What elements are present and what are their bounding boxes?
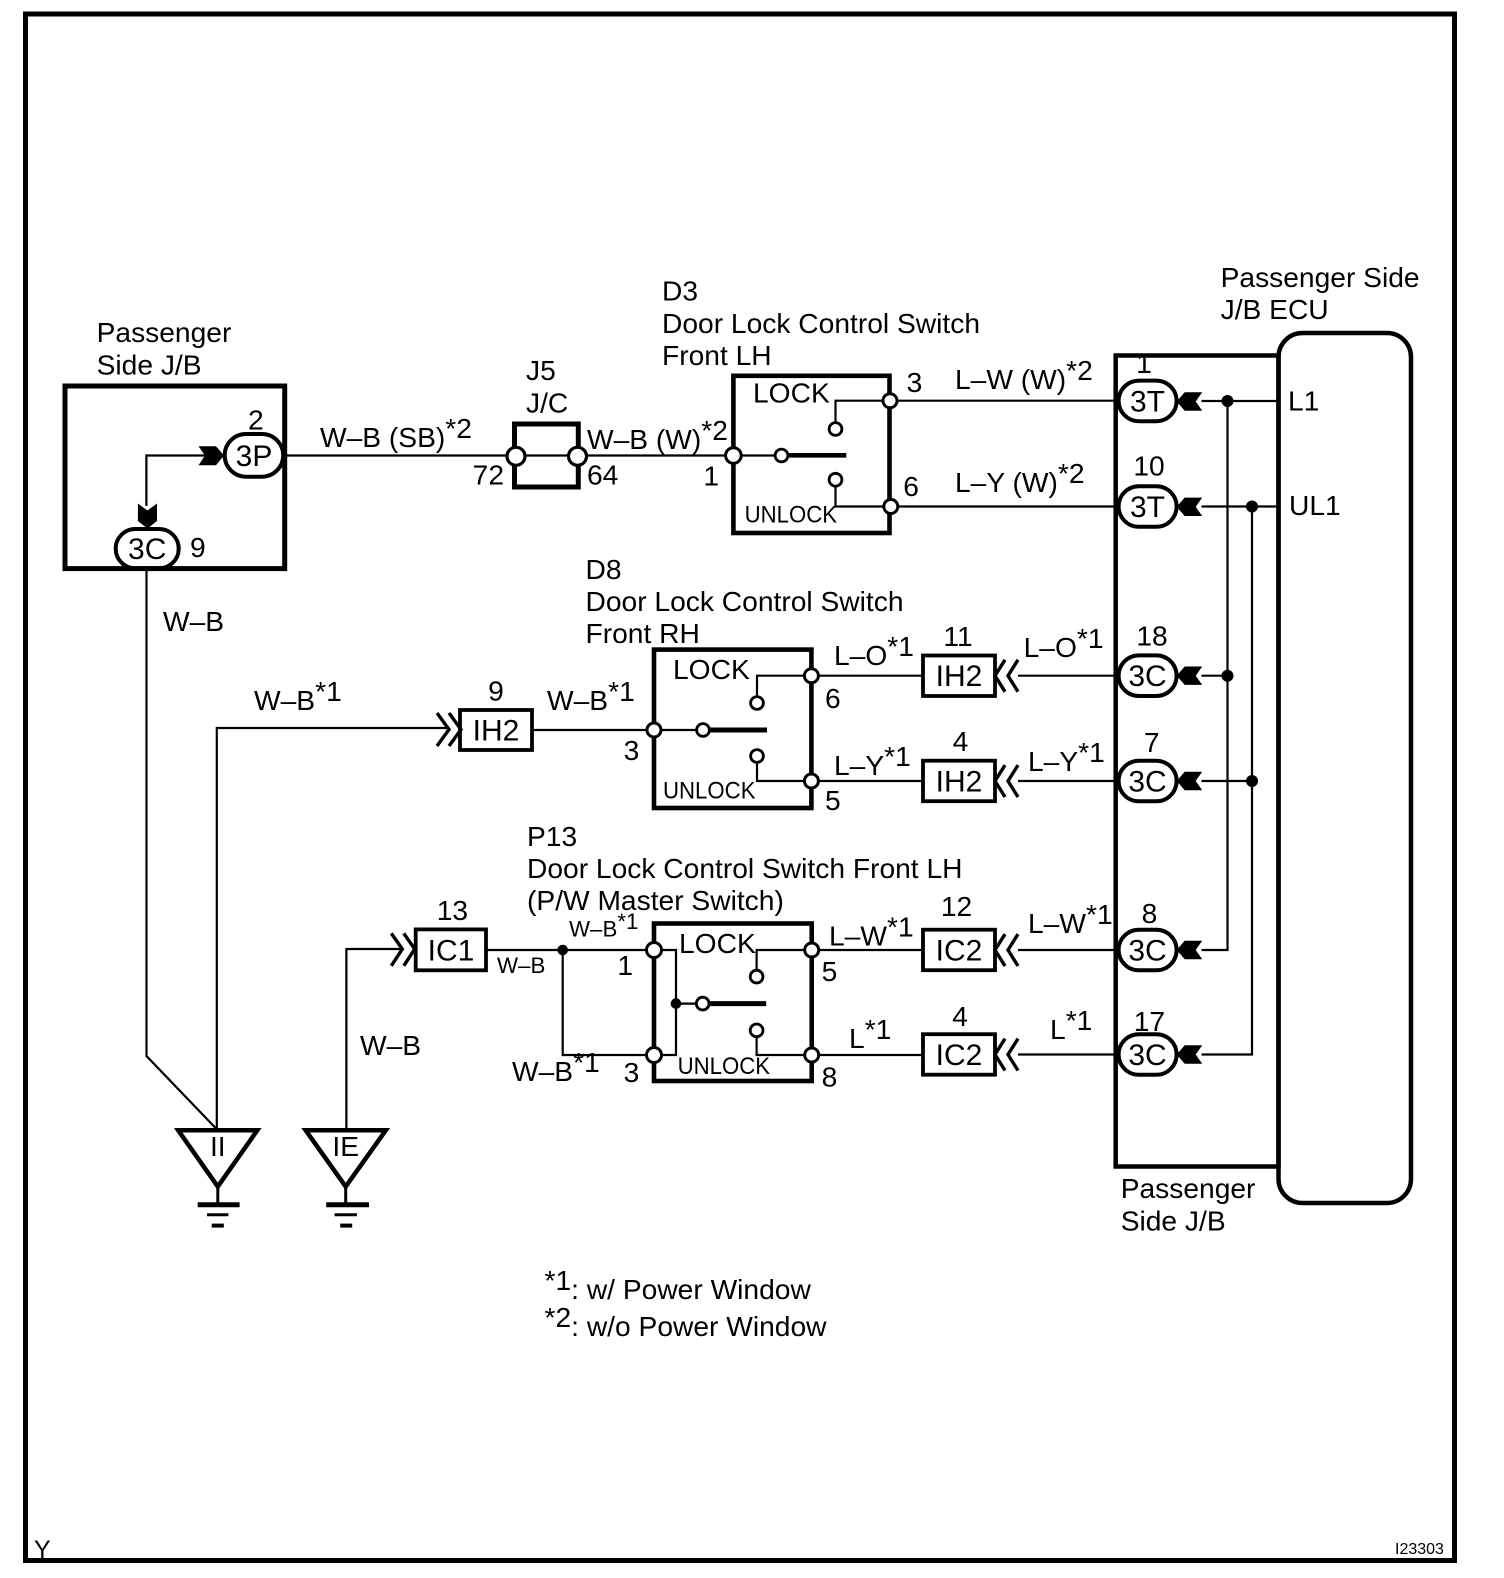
svg-text:D3: D3 (662, 275, 698, 307)
ground IE (306, 1130, 386, 1226)
wire: P13 UNLOCK contact to pin 8 (757, 1037, 804, 1055)
connector 3P pin 2 (225, 404, 284, 477)
svg-text:5: 5 (825, 784, 841, 816)
switch blade P13 (709, 1001, 766, 1006)
wire: D3 LOCK contact to pin 3 (836, 401, 884, 423)
svg-text:I23303: I23303 (1395, 1541, 1444, 1558)
node: D8 pin 5 (804, 774, 818, 788)
node: D8 pin 3 (647, 723, 661, 737)
svg-text:W–B: W–B (360, 1029, 421, 1061)
connector 3C pin 17 (1119, 1005, 1177, 1075)
node: D8 pivot (697, 724, 710, 737)
wire: L-W*1 from P13 pin 5 to IC2 12 (819, 949, 923, 951)
connector 3C pin 18 (1119, 620, 1177, 696)
svg-text:D8: D8 (586, 553, 622, 585)
arrow at 3C 7 (1177, 772, 1203, 790)
node: D3 LOCK contact (829, 423, 842, 436)
wire: D3 common to pivot (741, 454, 775, 456)
node: P13 pin 3 (647, 1048, 662, 1063)
svg-text:13: 13 (437, 894, 468, 926)
connector IH2 pin 9 (460, 675, 532, 750)
connector 3C pin 8 (1119, 897, 1177, 970)
svg-text:6: 6 (903, 470, 919, 502)
svg-text:3: 3 (624, 1056, 640, 1088)
svg-text:1: 1 (1136, 347, 1152, 379)
switch blade D8 (709, 728, 767, 733)
wire: D8 UNLOCK contact to pin 5 (757, 762, 804, 781)
switch D8 Door Lock Control Switch Front RH (586, 553, 904, 808)
svg-text:3T: 3T (1130, 491, 1165, 524)
connector 3C pin 9 (116, 529, 206, 568)
svg-text:7: 7 (1144, 726, 1160, 758)
svg-text:Side J/B: Side J/B (97, 349, 202, 381)
svg-text:Passenger: Passenger (1121, 1172, 1256, 1204)
svg-text:2: 2 (248, 404, 264, 436)
wire: P13 internal pin1/pin3 link (662, 950, 677, 1055)
ground II (178, 1130, 257, 1226)
arrow at 3C 8 (1177, 941, 1203, 959)
svg-text:4: 4 (952, 1000, 968, 1032)
connector IC2 pin 12 (923, 890, 995, 970)
junction dot row 18 (1222, 670, 1234, 682)
svg-text:J/C: J/C (526, 387, 568, 419)
node: J5 pin 72 (507, 447, 525, 465)
svg-text:Door Lock Control Switch: Door Lock Control Switch (662, 307, 980, 339)
svg-text:Passenger: Passenger (97, 316, 232, 348)
svg-text:J5: J5 (526, 354, 556, 386)
svg-text:8: 8 (1142, 897, 1158, 929)
svg-text:IH2: IH2 (936, 765, 983, 798)
svg-text:5: 5 (822, 955, 838, 987)
connector IH2 pin 11 (923, 620, 995, 696)
wire: D3 UNLOCK contact to pin 6 (836, 486, 884, 506)
node: P13 pin 1 (647, 943, 662, 958)
svg-text:UNLOCK: UNLOCK (663, 777, 756, 804)
svg-text:1: 1 (703, 460, 719, 492)
junction block: Passenger Side J/B (left) (97, 316, 232, 381)
connector IH2 pin 4 (923, 725, 995, 801)
wire: internal J/B wire from 3C up to 3P (146, 456, 207, 507)
wire: ECU UL1 to 3T 10 (1202, 505, 1277, 507)
node: D8 pin 6 (804, 669, 818, 683)
svg-text:3C: 3C (1128, 1039, 1166, 1072)
svg-text:3C: 3C (1128, 934, 1166, 967)
junction connector J5 J/C (473, 354, 619, 491)
wire: W-B*1 from IH2 9 to D8 pin 3 (532, 729, 647, 731)
wire: L-Y (W)*2 from D3 pin6 to 3T 10 (898, 505, 1120, 507)
arrow into connector 3C (138, 504, 157, 529)
svg-text:UL1: UL1 (1289, 489, 1341, 521)
junction block J/B left box outline (65, 386, 285, 569)
wire: L-W (W)*2 from D3 pin3 to 3T 1 (897, 400, 1120, 402)
junction dot L1 row (1222, 395, 1234, 407)
svg-text:IC2: IC2 (936, 934, 983, 967)
chevron pair into IH2 9 (437, 713, 449, 746)
svg-text:11: 11 (943, 620, 972, 652)
svg-text:IC2: IC2 (936, 1039, 983, 1072)
connector IC1 pin 13 (416, 894, 486, 970)
svg-text:Door Lock Control Switch Front: Door Lock Control Switch Front LH (527, 852, 963, 884)
wire: ECU L1 to 3T 1 (1202, 400, 1277, 402)
svg-text:3P: 3P (236, 440, 273, 473)
svg-text:3: 3 (624, 734, 640, 766)
connector IC2 pin 4 (923, 1000, 995, 1075)
svg-text:W–B: W–B (163, 605, 224, 637)
arrow into connector 3P (199, 446, 225, 465)
wire: P13 LOCK contact to pin 5 (757, 950, 804, 970)
switch P13 Door Lock Control Switch Front LH (P/W Master Switch) (527, 820, 963, 1081)
svg-text:8: 8 (822, 1061, 838, 1093)
svg-text:LOCK: LOCK (679, 927, 756, 959)
chevron pair into IC1 (391, 933, 402, 965)
switch blade D3 (788, 453, 846, 458)
svg-text:64: 64 (587, 459, 618, 491)
svg-text:LOCK: LOCK (753, 377, 830, 409)
svg-text:9: 9 (488, 675, 504, 707)
svg-text:1: 1 (617, 949, 633, 981)
wire: W-B*1 long run to IH2 9 (217, 728, 447, 1130)
node: D8 UNLOCK contact (751, 750, 764, 763)
wire: branch into 3C 7 (1202, 780, 1253, 782)
svg-text:18: 18 (1136, 620, 1167, 652)
wire: L-W*1 from IC2 12 to 3C 8 (1018, 949, 1120, 951)
node: D3 pin 6 (884, 500, 898, 514)
ECU box: Passenger Side J/B ECU (1221, 261, 1420, 1203)
node: D3 pin 1 (726, 448, 742, 464)
svg-text:Y: Y (34, 1536, 51, 1564)
chevron pair at IH2 4 (995, 765, 1005, 797)
wire: bus line 1 (L1 branch) (1202, 401, 1228, 950)
wire: W-B (SB)*2 from 3P to J5 (283, 454, 734, 456)
junction dot row 7 (1246, 775, 1258, 787)
chevron pair at IC2 12 (995, 934, 1005, 966)
svg-text:3: 3 (907, 366, 923, 398)
svg-text:II: II (210, 1130, 226, 1162)
wire: D8 LOCK contact to pin 6 (757, 676, 804, 697)
junction block bar: Passenger Side J/B (right) (1116, 356, 1279, 1237)
svg-text:72: 72 (473, 459, 504, 491)
wire: W-B into IC1 with corner down to IE ground (346, 949, 402, 1130)
connector 3T pin 10 (1119, 449, 1177, 527)
wire: L-O*1 from IH2 11 to 3C 18 (1018, 675, 1120, 677)
svg-text:UNLOCK: UNLOCK (678, 1053, 771, 1080)
svg-text:17: 17 (1134, 1005, 1165, 1037)
svg-text:Passenger Side: Passenger Side (1221, 261, 1420, 293)
wire: L*1 from IC2 4 to 3C 17 (1018, 1053, 1120, 1055)
connector 3T pin 1 (1119, 347, 1177, 421)
wire: L*1 from P13 pin 8 to IC2 4 (819, 1054, 923, 1056)
junction dot UL1 row (1246, 501, 1258, 513)
chevron pair at IH2 11 (995, 660, 1005, 692)
svg-text:9: 9 (190, 531, 206, 563)
svg-text:(P/W Master Switch): (P/W Master Switch) (527, 884, 784, 916)
svg-text:L1: L1 (1288, 385, 1319, 417)
wire: L-O*1 from D8 pin 6 to IH2 11 (818, 675, 923, 677)
junction dot P13 internal (671, 998, 682, 1009)
svg-text:Front RH: Front RH (586, 617, 700, 649)
wire: bus line 2 (UL1 branch) (1202, 507, 1253, 1055)
svg-text:3C: 3C (1128, 660, 1166, 693)
connector 3C pin 7 (1119, 726, 1177, 801)
svg-text:10: 10 (1133, 449, 1164, 481)
node: D3 pin 3 (883, 394, 897, 408)
svg-text:P13: P13 (527, 820, 577, 852)
svg-text:6: 6 (825, 682, 841, 714)
node: P13 UNLOCK contact (750, 1024, 763, 1037)
svg-text:Side J/B: Side J/B (1121, 1205, 1226, 1237)
node: P13 pivot (696, 997, 709, 1010)
wire: W-B from 3C 9 down and diagonal to ground II (147, 571, 218, 1130)
svg-text:LOCK: LOCK (673, 653, 750, 685)
node: D3 pivot (775, 449, 788, 462)
node: J5 pin 64 (569, 447, 587, 465)
junction dot W-B (557, 945, 568, 956)
wire: IC1 to P13 pin 1 with junction (486, 949, 647, 951)
arrow at 3C 18 (1177, 667, 1203, 685)
wire: L-Y*1 from D8 pin 5 to IH2 4 (818, 780, 923, 782)
svg-text:IC1: IC1 (428, 934, 475, 967)
svg-text:IE: IE (332, 1130, 359, 1162)
svg-text:IH2: IH2 (936, 660, 983, 693)
wire: P13 dot to pivot (676, 1002, 696, 1004)
svg-text:J/B ECU: J/B ECU (1221, 293, 1329, 325)
wire: junction down to P13 pin 3 (563, 950, 647, 1055)
node: D3 UNLOCK contact (829, 473, 842, 486)
node: P13 pin 5 (805, 943, 819, 957)
svg-text:W–B: W–B (497, 953, 545, 978)
wire: L-Y*1 from IH2 4 to 3C 7 (1018, 780, 1120, 782)
node: P13 LOCK contact (750, 970, 763, 983)
svg-text:UNLOCK: UNLOCK (745, 502, 838, 529)
svg-text:12: 12 (941, 890, 972, 922)
svg-text:IH2: IH2 (473, 714, 520, 747)
node: D8 LOCK contact (751, 697, 764, 710)
chevron pair at IC2 4 (995, 1039, 1005, 1071)
svg-text:4: 4 (953, 725, 969, 757)
wire: branch into 3C 18 (1202, 675, 1228, 677)
arrow at 3T 10 (1177, 498, 1203, 516)
wire: D8 common to pivot (661, 729, 697, 731)
arrow at 3T 1 (1177, 392, 1203, 410)
node: P13 pin 8 (805, 1048, 819, 1062)
svg-text:3C: 3C (128, 533, 166, 566)
arrow at 3C 17 (1177, 1045, 1203, 1063)
switch D3 Door Lock Control Switch Front LH (662, 275, 980, 534)
svg-text:Front LH: Front LH (662, 339, 772, 371)
svg-text:3T: 3T (1130, 385, 1165, 418)
svg-text:3C: 3C (1128, 765, 1166, 798)
svg-text:Door Lock Control Switch: Door Lock Control Switch (586, 585, 904, 617)
